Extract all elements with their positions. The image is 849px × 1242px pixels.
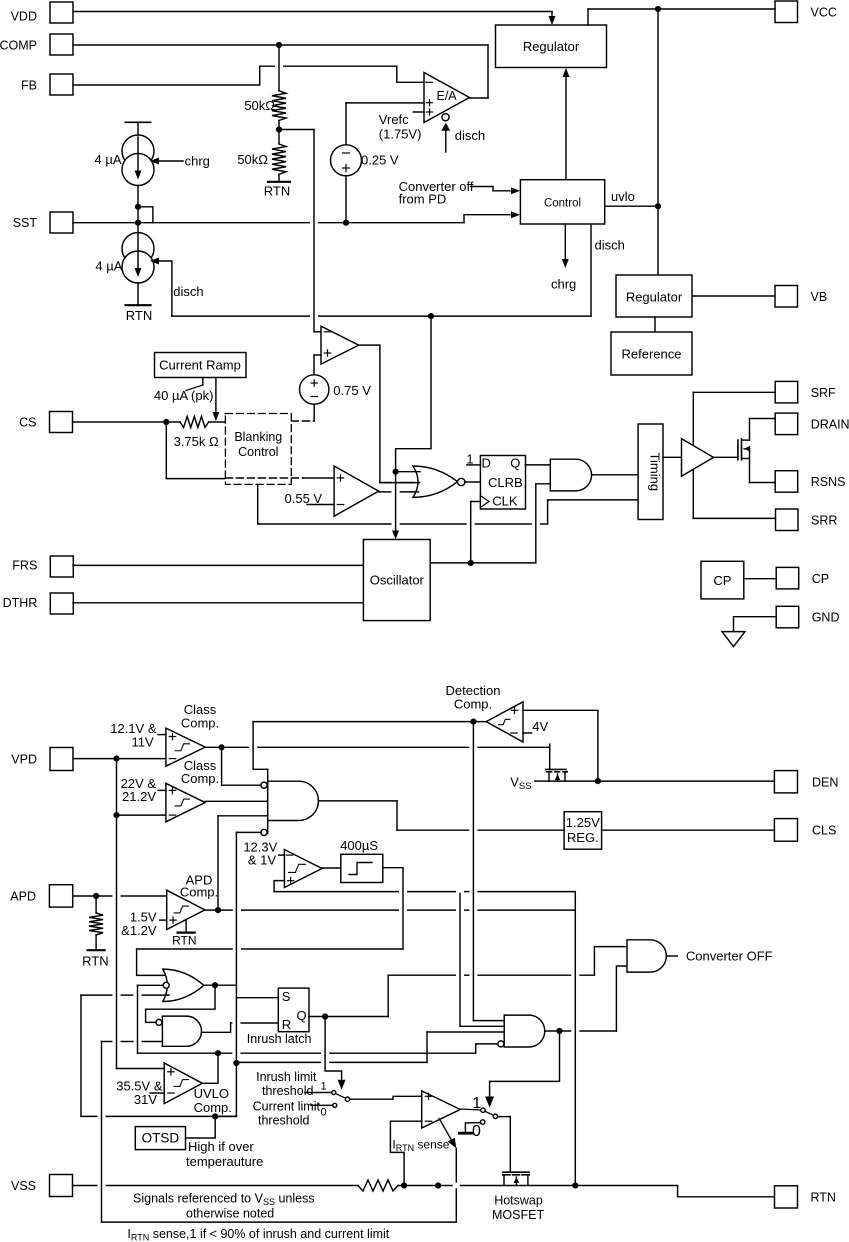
- svg-text:4 µA: 4 µA: [95, 259, 122, 274]
- svg-text:400µS: 400µS: [340, 838, 378, 853]
- svg-text:uvlo: uvlo: [611, 189, 635, 204]
- svg-text:Oscillator: Oscillator: [370, 573, 425, 588]
- svg-text:GND: GND: [812, 611, 840, 625]
- svg-text:Regulator: Regulator: [523, 39, 580, 54]
- svg-text:Regulator: Regulator: [626, 290, 683, 305]
- svg-text:VB: VB: [811, 290, 828, 304]
- svg-text:Comp.: Comp.: [454, 697, 492, 712]
- svg-text:FB: FB: [21, 78, 37, 92]
- svg-text:Blanking: Blanking: [234, 430, 282, 444]
- svg-text:disch: disch: [173, 284, 203, 299]
- svg-text:from PD: from PD: [399, 192, 447, 207]
- svg-text:4V: 4V: [532, 719, 548, 734]
- svg-text:SST: SST: [13, 216, 38, 230]
- svg-text:Converter OFF: Converter OFF: [686, 949, 773, 964]
- svg-text:40 µA (pk): 40 µA (pk): [154, 388, 214, 403]
- svg-text:chrg: chrg: [185, 154, 210, 169]
- svg-text:E/A: E/A: [437, 89, 458, 103]
- svg-text:DTHR: DTHR: [3, 596, 38, 610]
- svg-text:VSS: VSS: [11, 1179, 36, 1193]
- svg-text:50kΩ: 50kΩ: [237, 152, 268, 167]
- svg-text:11V: 11V: [132, 735, 154, 750]
- svg-text:VCC: VCC: [811, 5, 837, 19]
- svg-text:&1.2V: &1.2V: [121, 923, 157, 938]
- svg-text:REG.: REG.: [567, 830, 599, 845]
- svg-text:31V: 31V: [134, 1092, 157, 1107]
- svg-text:RTN: RTN: [172, 934, 196, 948]
- svg-text:Q: Q: [297, 1008, 307, 1023]
- svg-text:temperauture: temperauture: [186, 1154, 263, 1169]
- svg-text:chrg: chrg: [551, 277, 576, 292]
- svg-text:CLS: CLS: [812, 823, 836, 837]
- svg-text:CLRB: CLRB: [488, 475, 523, 490]
- svg-text:RTN: RTN: [811, 1190, 836, 1204]
- svg-text:4 µA: 4 µA: [94, 152, 121, 167]
- svg-text:RTN: RTN: [82, 954, 108, 969]
- svg-text:D: D: [482, 456, 491, 471]
- svg-text:S: S: [282, 989, 291, 1004]
- svg-text:21.2V: 21.2V: [122, 789, 156, 804]
- svg-text:0.55 V: 0.55 V: [285, 491, 323, 506]
- svg-text:Q: Q: [510, 456, 520, 471]
- svg-text:0.25 V: 0.25 V: [361, 153, 399, 168]
- svg-text:CP: CP: [812, 572, 829, 586]
- svg-text:3.75k Ω: 3.75k Ω: [174, 434, 219, 449]
- svg-text:Reference: Reference: [622, 347, 682, 362]
- svg-text:DEN: DEN: [812, 775, 838, 789]
- svg-text:Signals referenced to VSS unle: Signals referenced to VSS unless: [133, 1192, 315, 1208]
- svg-text:Timing: Timing: [648, 453, 663, 492]
- svg-text:Control: Control: [238, 445, 278, 459]
- svg-text:disch: disch: [455, 128, 485, 143]
- svg-text:RTN: RTN: [264, 184, 290, 199]
- svg-text:CS: CS: [19, 415, 36, 429]
- svg-text:Comp.: Comp.: [181, 771, 219, 786]
- svg-text:R: R: [282, 1017, 291, 1032]
- svg-text:threshold: threshold: [258, 1114, 309, 1128]
- svg-text:VDD: VDD: [11, 10, 37, 24]
- svg-text:disch: disch: [595, 238, 625, 253]
- svg-text:CP: CP: [713, 573, 731, 588]
- svg-text:VPD: VPD: [11, 752, 37, 766]
- svg-text:SRF: SRF: [811, 386, 836, 400]
- svg-text:UVLO: UVLO: [194, 1086, 229, 1101]
- svg-text:(1.75V): (1.75V): [379, 127, 422, 142]
- svg-text:MOSFET: MOSFET: [492, 1208, 544, 1222]
- svg-text:High if over: High if over: [188, 1139, 254, 1154]
- svg-text:RTN: RTN: [126, 308, 152, 323]
- svg-text:& 1V: & 1V: [248, 853, 277, 868]
- svg-text:0.75 V: 0.75 V: [333, 383, 371, 398]
- svg-text:SRR: SRR: [811, 513, 837, 527]
- svg-text:FRS: FRS: [12, 559, 37, 573]
- svg-text:APD: APD: [10, 889, 36, 903]
- svg-text:1: 1: [320, 1081, 326, 1093]
- svg-text:Comp.: Comp.: [194, 1100, 232, 1115]
- svg-text:Comp.: Comp.: [181, 716, 219, 731]
- svg-text:Comp.: Comp.: [180, 885, 218, 900]
- svg-text:Hotswap: Hotswap: [494, 1194, 543, 1208]
- svg-text:DRAIN: DRAIN: [811, 417, 849, 431]
- svg-text:Inrush latch: Inrush latch: [247, 1032, 312, 1046]
- svg-text:Current limit: Current limit: [253, 1100, 321, 1114]
- svg-text:RSNS: RSNS: [811, 475, 846, 489]
- svg-text:COMP: COMP: [0, 38, 37, 52]
- svg-text:1.25V: 1.25V: [566, 815, 600, 830]
- svg-text:Control: Control: [544, 197, 581, 209]
- svg-text:otherwise noted: otherwise noted: [186, 1207, 274, 1221]
- svg-text:Inrush limit: Inrush limit: [256, 1070, 317, 1084]
- svg-text:50kΩ: 50kΩ: [244, 98, 275, 113]
- svg-text:Current Ramp: Current Ramp: [159, 358, 241, 373]
- svg-text:Vrefc: Vrefc: [379, 112, 409, 127]
- svg-text:IRTN sense,1 if < 90% of inrus: IRTN sense,1 if < 90% of inrush and curr…: [127, 1227, 389, 1242]
- svg-text:0: 0: [472, 1123, 481, 1140]
- svg-text:threshold: threshold: [262, 1084, 313, 1098]
- svg-text:CLK: CLK: [492, 494, 518, 509]
- svg-text:OTSD: OTSD: [142, 1131, 180, 1146]
- svg-text:0: 0: [320, 1107, 326, 1119]
